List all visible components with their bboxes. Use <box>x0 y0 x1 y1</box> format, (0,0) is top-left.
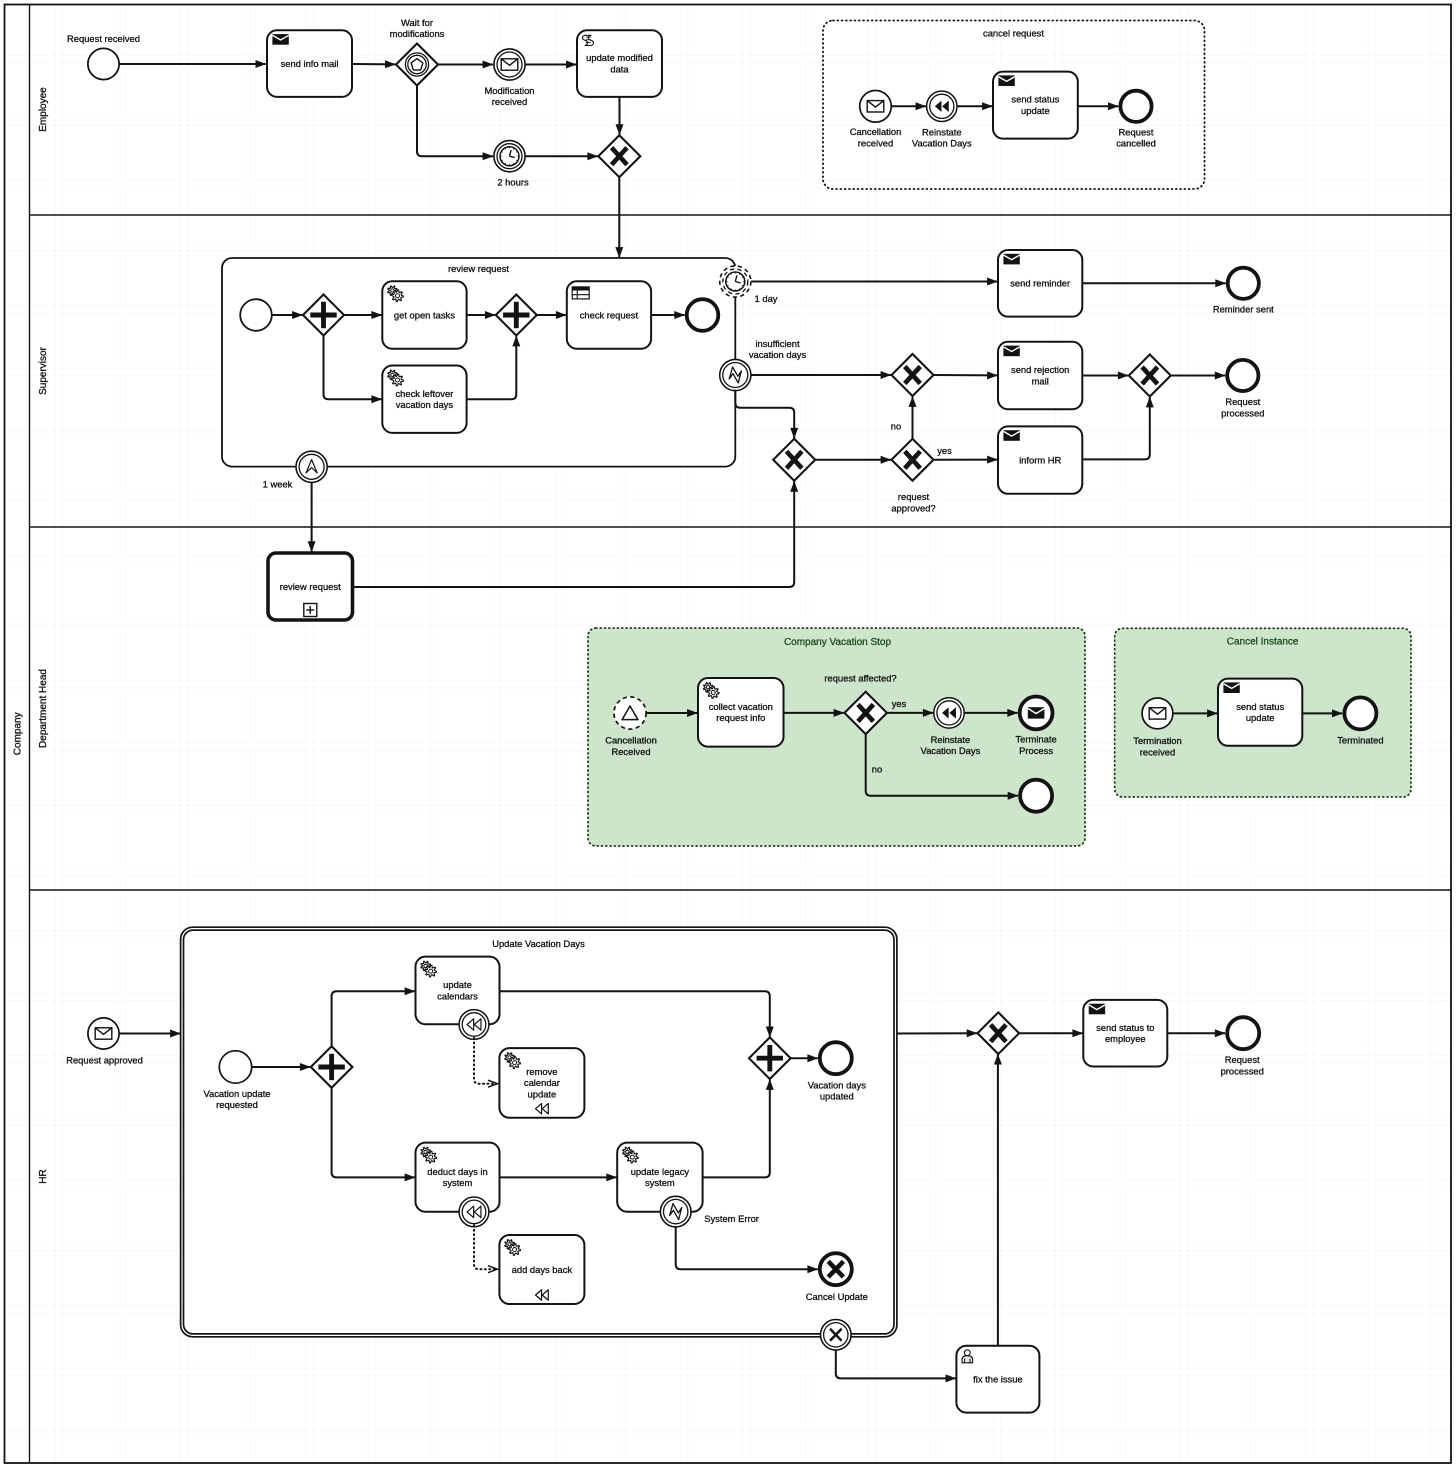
lane separator Supervisor/Department Head <box>30 526 1452 528</box>
flow: send reminder to Reminder sent <box>1083 282 1226 284</box>
svg-text:Request: Request <box>1119 126 1154 137</box>
exclusive gateway: before send rejection mail <box>892 354 934 396</box>
svg-text:processed: processed <box>1221 407 1264 418</box>
exclusive gateway: merge from review request <box>773 439 815 481</box>
svg-text:no: no <box>872 763 882 774</box>
end event: Reminder sent <box>1213 268 1274 315</box>
flow: join to Vacation days updated <box>791 1057 818 1059</box>
svg-text:1 week: 1 week <box>263 478 293 489</box>
flow: System Error to Cancel Update <box>676 1227 818 1269</box>
svg-text:send reminder: send reminder <box>1010 278 1070 289</box>
boundary error event: System Error <box>660 1196 759 1227</box>
svg-text:send status to: send status to <box>1096 1022 1154 1033</box>
svg-text:Department Head: Department Head <box>38 669 49 748</box>
svg-text:request: request <box>898 491 930 502</box>
boundary timer event: 1 day <box>720 266 778 304</box>
svg-text:Cancellation: Cancellation <box>605 735 657 746</box>
svg-text:approved?: approved? <box>891 503 935 514</box>
svg-text:2 hours: 2 hours <box>497 176 529 187</box>
flow: start to parallel split <box>272 314 302 316</box>
svg-text:deduct days in: deduct days in <box>427 1166 487 1177</box>
svg-text:Wait for: Wait for <box>401 17 433 28</box>
flow: split to get open tasks <box>344 314 382 316</box>
svg-text:Request: Request <box>1225 1054 1260 1065</box>
svg-text:Process: Process <box>1019 745 1053 756</box>
task: send status update <box>993 72 1078 139</box>
svg-text:Termination: Termination <box>1133 735 1181 746</box>
message catch event: Modification received <box>484 49 534 107</box>
svg-text:Modification: Modification <box>484 85 534 96</box>
flow: send info mail to gateway <box>352 63 395 65</box>
svg-text:mail: mail <box>1032 375 1049 386</box>
service task: update legacy system <box>617 1143 702 1212</box>
lane separator Employee/Supervisor <box>30 214 1452 216</box>
exclusive gateway: request approved? <box>891 439 935 514</box>
svg-text:1 day: 1 day <box>755 293 778 304</box>
flow: merge to Request processed <box>1171 375 1225 377</box>
flow: fix the issue up to merge gateway <box>997 1054 999 1346</box>
svg-text:cancelled: cancelled <box>1116 138 1156 149</box>
transaction subprocess: Update Vacation Days <box>181 927 897 1337</box>
flow: send status to employee to Request processed <box>1168 1032 1226 1034</box>
svg-text:Employee: Employee <box>38 87 49 132</box>
end event: Terminated <box>1337 697 1383 745</box>
task: send status update (cancel instance) <box>1218 679 1302 746</box>
svg-text:Terminated: Terminated <box>1337 734 1383 745</box>
message end event: Terminate Process <box>1016 697 1057 756</box>
boundary compensation event (deduct days) <box>459 1197 489 1227</box>
svg-text:data: data <box>610 64 629 75</box>
call activity: review request <box>268 553 353 620</box>
start event (review request) <box>240 299 272 331</box>
business rule task: check request <box>567 281 651 348</box>
flow: deduct days to update legacy system <box>500 1176 617 1178</box>
flow: Reinstate Vacation Days to send status update <box>957 105 992 107</box>
compensation throw event: Reinstate Vacation Days <box>912 91 972 149</box>
svg-text:no: no <box>891 420 901 431</box>
task: inform HR <box>998 426 1082 493</box>
cancel end event: Cancel Update <box>806 1253 868 1302</box>
flow: check request to end <box>651 314 684 316</box>
flow: gateway to Modification received <box>438 64 493 66</box>
svg-text:send status: send status <box>1011 94 1059 105</box>
flow: merge to request approved? <box>815 459 891 461</box>
svg-text:update: update <box>1246 712 1275 723</box>
group: Cancel Instance <box>1115 628 1411 797</box>
flow: Request approved to Update Vacation Days subprocess <box>119 1033 180 1035</box>
svg-text:calendars: calendars <box>437 990 478 1001</box>
svg-text:vacation days: vacation days <box>396 399 454 410</box>
svg-text:remove: remove <box>526 1066 557 1077</box>
service task: deduct days in system <box>416 1143 500 1212</box>
svg-text:Reminder sent: Reminder sent <box>1213 304 1274 315</box>
flow: update modified data down to merge gateway <box>619 97 621 135</box>
svg-text:calendar: calendar <box>524 1077 560 1088</box>
parallel gateway: join (HR) <box>749 1037 791 1079</box>
task: send rejection mail <box>998 342 1082 409</box>
flow: join to check request <box>537 314 566 316</box>
task: send status to employee <box>1083 1000 1167 1067</box>
svg-text:processed: processed <box>1221 1065 1264 1076</box>
exclusive gateway: merge before Request processed <box>1129 355 1171 397</box>
start event: Request received <box>67 33 140 80</box>
group: Company Vacation Stop <box>588 628 1085 846</box>
svg-text:Request received: Request received <box>67 33 140 44</box>
flow: Reinstate to Terminate Process <box>964 712 1017 714</box>
flow: yes to Reinstate Vacation Days <box>887 712 933 714</box>
task: send reminder <box>998 250 1082 317</box>
label: yes (request affected) <box>892 698 907 709</box>
svg-text:Terminate: Terminate <box>1016 734 1057 745</box>
svg-text:Update Vacation Days: Update Vacation Days <box>492 938 585 949</box>
end event: Request processed (supervisor) <box>1221 360 1264 418</box>
compensation task: add days back <box>499 1235 584 1304</box>
svg-text:send status: send status <box>1236 701 1284 712</box>
svg-text:system: system <box>645 1177 675 1188</box>
flow: split down to check leftover vacation days <box>324 336 382 400</box>
label: no <box>891 420 901 431</box>
svg-text:System Error: System Error <box>704 1213 759 1224</box>
svg-text:update modified: update modified <box>586 52 653 63</box>
task: update modified data <box>577 30 662 97</box>
exclusive gateway: request affected? <box>824 672 896 734</box>
message start event: Termination received <box>1133 698 1181 757</box>
flow: merge to send status to employee <box>1019 1032 1082 1034</box>
flow: error event down to merge gateway <box>735 391 794 438</box>
svg-text:Request: Request <box>1225 396 1260 407</box>
svg-text:HR: HR <box>38 1169 49 1183</box>
svg-text:check leftover: check leftover <box>395 388 453 399</box>
flow: error to rejection gateway <box>751 374 891 376</box>
svg-text:yes: yes <box>892 698 907 709</box>
svg-text:update: update <box>443 979 472 990</box>
svg-text:send info mail: send info mail <box>281 58 339 69</box>
flow: no branch to end event <box>866 734 1018 795</box>
svg-text:cancel request: cancel request <box>983 27 1044 38</box>
svg-text:Vacation Days: Vacation Days <box>921 745 981 756</box>
svg-text:Reinstate: Reinstate <box>931 734 971 745</box>
svg-text:received: received <box>1140 746 1175 757</box>
svg-text:review request: review request <box>280 581 341 592</box>
svg-text:Company: Company <box>13 712 24 755</box>
flow: gateway to 2 hours timer <box>417 86 493 157</box>
lane separator Department Head/HR <box>30 889 1452 891</box>
svg-text:collect vacation: collect vacation <box>709 701 773 712</box>
flow: 2 hours to merge gateway <box>525 155 597 157</box>
association: compensation to remove calendar update <box>474 1038 497 1084</box>
flow: check leftover to join <box>467 336 517 399</box>
subprocess: review request <box>222 258 735 467</box>
parallel gateway: join <box>496 295 537 336</box>
svg-text:Supervisor: Supervisor <box>38 346 49 394</box>
flow: split down to deduct days in system <box>332 1088 415 1177</box>
svg-text:yes: yes <box>937 445 952 456</box>
svg-text:Cancellation: Cancellation <box>850 126 902 137</box>
timer event: 2 hours <box>494 141 529 188</box>
flow: Modification received to update modified data <box>525 64 576 66</box>
end event (no branch) <box>1020 780 1052 812</box>
start event: Vacation update requested <box>203 1051 270 1110</box>
svg-text:Received: Received <box>611 746 650 757</box>
svg-text:Vacation Days: Vacation Days <box>912 138 972 149</box>
service task: get open tasks <box>382 281 466 348</box>
service task: collect vacation request info <box>698 678 784 747</box>
flow: start to parallel split (HR) <box>252 1066 310 1068</box>
flow: Cancellation received to Reinstate Vacation Days <box>892 105 926 107</box>
end event: Request cancelled <box>1116 91 1156 149</box>
exclusive gateway: merge (employee) <box>598 135 640 177</box>
svg-text:insufficient: insufficient <box>755 338 800 349</box>
flow: start to send info mail <box>119 63 265 65</box>
message start event: Request approved <box>66 1018 143 1065</box>
end event (review request) <box>687 299 719 331</box>
svg-text:Vacation days: Vacation days <box>808 1079 867 1090</box>
flow: merge gateway down to review request subprocess <box>618 177 620 257</box>
flow: gateway to send rejection mail <box>934 374 998 376</box>
svg-text:Request approved: Request approved <box>66 1054 143 1065</box>
label: no (request affected) <box>872 763 882 774</box>
end event: Request processed (HR) <box>1221 1017 1264 1076</box>
boundary escalation event: 1 week <box>263 451 328 489</box>
svg-text:Cancel Update: Cancel Update <box>806 1291 868 1302</box>
end event: Vacation days updated <box>808 1042 867 1102</box>
svg-text:Company Vacation Stop: Company Vacation Stop <box>784 637 892 648</box>
flow: update calendars to join <box>500 991 770 1037</box>
flow: no branch up to rejection gateway <box>912 397 914 439</box>
message start event: Cancellation received <box>850 91 902 149</box>
svg-text:Reinstate: Reinstate <box>922 126 962 137</box>
svg-text:vacation days: vacation days <box>749 349 807 360</box>
svg-text:system: system <box>443 1177 473 1188</box>
signal start event: Cancellation Received <box>605 697 657 757</box>
svg-text:updated: updated <box>820 1091 854 1102</box>
svg-text:employee: employee <box>1105 1033 1146 1044</box>
svg-text:requested: requested <box>216 1099 258 1110</box>
compensation throw event: Reinstate Vacation Days (dept) <box>921 698 981 756</box>
flow: send rejection mail to merge gateway <box>1083 375 1129 377</box>
event-based gateway: Wait for modifications <box>390 17 445 86</box>
flow: get open tasks to parallel join <box>467 314 495 316</box>
boundary error event: insufficient vacation days <box>720 338 807 391</box>
svg-text:inform HR: inform HR <box>1019 454 1061 465</box>
svg-text:send rejection: send rejection <box>1011 364 1069 375</box>
flow: 1 day to send reminder <box>751 281 997 283</box>
user task: fix the issue <box>956 1346 1039 1413</box>
flow: send status update to Request cancelled <box>1078 105 1118 107</box>
association: compensation to add days back <box>474 1225 497 1269</box>
boundary cancel event (transaction) <box>821 1320 852 1351</box>
svg-text:update: update <box>528 1089 557 1100</box>
flow: Termination received to send status update <box>1173 712 1217 714</box>
event subprocess: cancel request <box>823 21 1205 190</box>
svg-text:update legacy: update legacy <box>631 1166 690 1177</box>
flow: review request call activity to merge gateway <box>353 481 795 587</box>
flow: collect vacation request info to request affected? <box>784 712 844 714</box>
parallel gateway: split <box>303 295 344 336</box>
svg-text:fix the issue: fix the issue <box>973 1373 1023 1384</box>
parallel gateway: split (HR) <box>311 1046 353 1088</box>
svg-text:request info: request info <box>716 712 765 723</box>
flow: cancel boundary to fix the issue <box>836 1350 956 1378</box>
flow: split up to update calendars <box>332 991 415 1046</box>
svg-text:add days back: add days back <box>512 1264 573 1275</box>
svg-text:received: received <box>492 96 527 107</box>
svg-text:Cancel Instance: Cancel Instance <box>1227 637 1299 648</box>
flow: update legacy system to join <box>703 1080 770 1178</box>
flow: subprocess to merge gateway (HR) <box>897 1032 977 1034</box>
svg-text:check request: check request <box>580 309 639 320</box>
compensation task: remove calendar update <box>499 1048 584 1118</box>
svg-text:Vacation update: Vacation update <box>203 1088 270 1099</box>
flow: yes to inform HR <box>934 459 998 461</box>
svg-text:review request: review request <box>448 263 509 274</box>
service task: update calendars <box>416 957 500 1025</box>
task: send info mail <box>267 30 352 97</box>
svg-text:received: received <box>858 138 893 149</box>
service task: check leftover vacation days <box>382 366 466 433</box>
flow: send status update to Terminated <box>1303 712 1343 714</box>
label: yes <box>937 445 952 456</box>
flow: 1 week down to review request call activity <box>311 483 313 552</box>
flow: Cancellation Received to collect vacation request info <box>646 712 697 714</box>
exclusive gateway: merge (HR) <box>978 1012 1020 1054</box>
svg-text:update: update <box>1021 105 1050 116</box>
boundary compensation event (update calendars) <box>459 1010 489 1040</box>
svg-text:get open tasks: get open tasks <box>394 309 455 320</box>
svg-text:modifications: modifications <box>390 28 445 39</box>
flow: inform HR to merge gateway <box>1083 397 1150 459</box>
svg-text:request affected?: request affected? <box>824 672 896 683</box>
